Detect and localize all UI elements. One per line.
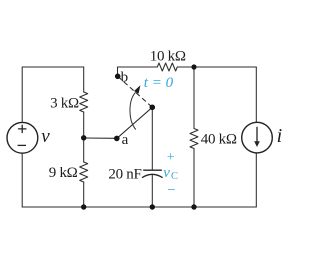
wire right rail lower: [255, 153, 257, 207]
wire to node a: [84, 137, 115, 139]
svg-text:v: v: [163, 165, 170, 181]
svg-text:40 kΩ: 40 kΩ: [201, 132, 237, 148]
svg-text:a: a: [122, 132, 129, 148]
wire right rail upper: [255, 67, 257, 122]
junction dot top (40k top): [191, 64, 196, 69]
wire middle branch lower: [83, 182, 85, 207]
voltage source v circle: [7, 122, 38, 153]
voltage source minus sign: [18, 144, 26, 146]
junction dot bottom 40k: [191, 204, 196, 209]
wire 10k to right rail: [177, 66, 256, 68]
resistor R 3k zigzag: [80, 92, 88, 112]
wire capacitor to bottom rail: [151, 175, 153, 207]
svg-text:t = 0: t = 0: [144, 75, 174, 91]
switch arrowhead: [134, 85, 140, 93]
svg-text:20 nF: 20 nF: [108, 166, 141, 182]
resistor R 40k zigzag: [190, 129, 198, 149]
switch blade (solid) from a to pivot: [117, 107, 153, 138]
current source arrow shaft: [256, 127, 258, 142]
switch motion arc arrow: [130, 92, 136, 129]
junction dot bottom capacitor: [150, 204, 155, 209]
svg-text:b: b: [121, 69, 129, 85]
resistor R 10k zigzag: [157, 63, 177, 71]
node a dot: [114, 136, 120, 142]
wire top segment b-corner to 10k: [118, 67, 158, 74]
capacitor C curved plate: [142, 174, 163, 177]
switch pivot dot: [150, 105, 156, 111]
wire 40k branch upper: [193, 67, 195, 129]
node b dot: [115, 74, 121, 80]
svg-text:10 kΩ: 10 kΩ: [150, 48, 186, 64]
wire top-left segment and left rail upper: [22, 67, 83, 123]
wire left rail lower: [21, 153, 23, 207]
svg-text:−: −: [167, 183, 175, 199]
junction dot 3k/9k node: [81, 135, 86, 140]
resistor R 9k zigzag: [80, 162, 88, 182]
svg-text:9 kΩ: 9 kΩ: [49, 165, 78, 181]
capacitor C top plate: [143, 169, 162, 171]
wire switch pivot to capacitor: [151, 107, 153, 170]
svg-text:3 kΩ: 3 kΩ: [50, 95, 79, 111]
voltage source plus sign: [18, 125, 26, 133]
current source arrowhead: [254, 141, 260, 147]
wire 40k branch lower: [193, 149, 195, 208]
svg-text:+: +: [167, 150, 175, 165]
junction dot bottom left: [81, 204, 86, 209]
svg-text:i: i: [277, 125, 283, 147]
svg-text:C: C: [171, 171, 178, 182]
wire bottom rail: [22, 206, 256, 208]
current source i circle: [242, 122, 273, 153]
svg-text:v: v: [41, 126, 50, 147]
switch dashed line from b to pivot: [118, 76, 153, 107]
wire middle branch upper: [83, 67, 85, 92]
wire middle branch between 3k and 9k: [83, 112, 85, 162]
